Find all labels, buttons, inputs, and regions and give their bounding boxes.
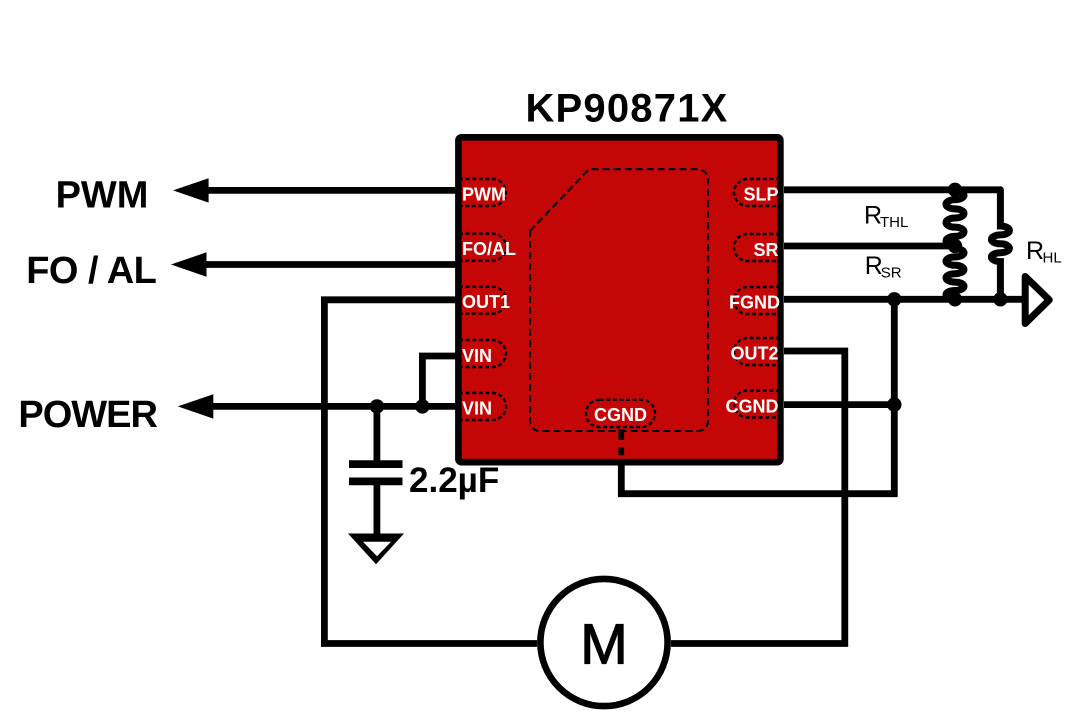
pin VIN lower (pin 5) [459,393,506,420]
wire ground bus (FGND junction down and left to CGND bottom) [621,299,894,493]
CGND bottom pin dashed lead [618,429,624,455]
wire PWM [206,187,457,194]
svg-text:2.2µF: 2.2µF [409,461,499,500]
wire FGND to output arrow [784,296,1026,303]
ground symbol [348,534,404,565]
pin FO/AL (pin 2) [459,234,516,261]
svg-text:FGND: FGND [729,293,780,313]
svg-text:R: R [1026,237,1044,265]
wire POWER / VIN lower [211,403,457,410]
junction dot POWER/VIN upper [415,399,429,413]
wire capacitor top [373,406,380,462]
junction dot FGND/RSR [948,292,962,306]
wire FO/AL [204,261,457,268]
junction dot POWER/cap [370,399,384,413]
pin OUT1 (pin 3) [459,287,510,314]
svg-text:PWM: PWM [56,174,149,216]
exposed pad (dashed outline with chamfer) [530,169,708,431]
junction dot FGND/RHL [993,292,1007,306]
pin PWM (pin 1) [459,179,506,206]
svg-text:HL: HL [1043,250,1062,267]
pin OUT2 (pin 7) [730,338,780,365]
svg-text:VIN: VIN [462,399,492,419]
label RTHL [864,201,908,231]
svg-text:VIN: VIN [462,346,492,366]
wire OUT2 to motor right [671,351,845,644]
pin CGND right (pin 6) [726,391,781,418]
svg-text:OUT2: OUT2 [730,344,778,364]
arrow PWM (to host) [173,178,209,202]
label RHL [1026,237,1062,267]
svg-text:SR: SR [881,265,902,282]
junction dot CGND/ground bus [887,397,901,411]
svg-text:PWM: PWM [462,184,506,204]
pin FGND (pin 8) [729,287,780,314]
wire capacitor bottom [373,484,380,537]
pin SLP (pin 10) [734,179,780,206]
arrow POWER (supply) [178,394,214,418]
wire CGND right to ground bus [784,401,894,408]
svg-text:FO/AL: FO/AL [462,239,516,259]
svg-text:CGND: CGND [594,405,647,425]
connector arrow (open, right) [1025,277,1049,324]
resistor RSR [946,249,964,299]
capacitor C1 plate 2 [349,478,403,486]
wire SR to resistor junction [784,243,955,250]
pin CGND bottom (thermal pad pin) [586,400,655,427]
svg-text:M: M [580,613,627,677]
wire VIN upper branch [422,356,457,406]
junction dot SLP/RTHL/RHL [948,183,962,197]
capacitor C1 2.2uF plate 1 [349,460,403,468]
wire SLP to resistor network [784,186,1000,193]
svg-text:POWER: POWER [18,394,157,436]
arrow FO/AL (to host) [171,252,207,276]
svg-text:CGND: CGND [726,397,779,417]
svg-text:KP90871X: KP90871X [525,87,728,131]
label RSR [865,252,902,282]
resistor RTHL [946,191,964,246]
svg-text:THL: THL [880,214,908,231]
motor M1 [540,579,667,706]
pin SR (pin 9) [734,234,780,261]
svg-text:FO / AL: FO / AL [26,250,156,292]
resistor RHL with top lead from SLP wire [991,190,1009,299]
svg-text:SLP: SLP [743,185,778,205]
IC U1 body [458,137,780,462]
svg-text:OUT1: OUT1 [462,292,510,312]
junction dot SR/RTHL/RSR [948,239,962,253]
junction dot FGND/ground bus [887,292,901,306]
pin VIN upper (pin 4) [459,340,506,367]
svg-text:SR: SR [753,240,778,260]
wire OUT1 to motor left [324,300,537,644]
